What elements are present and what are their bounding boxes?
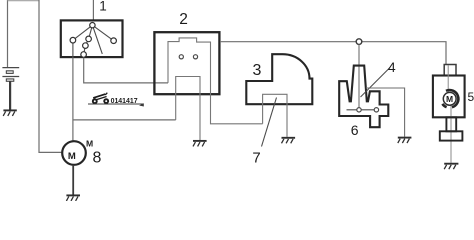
relay tab / pins	[176, 77, 200, 141]
wire node to coil 6	[358, 44, 360, 107]
svg-text:M: M	[446, 94, 453, 104]
ground G5	[398, 138, 412, 144]
svg-text:2: 2	[179, 11, 188, 28]
wire motor to ground	[72, 165, 74, 195]
ground G6 under starter	[444, 164, 458, 170]
horn 3 outline	[246, 54, 312, 104]
motor neck	[446, 117, 456, 131]
relay terminals	[179, 55, 197, 59]
motor 8	[62, 141, 86, 165]
starter motor 5	[444, 65, 456, 76]
ground G3 under horn	[282, 138, 296, 144]
ground G1 battery	[3, 110, 17, 116]
switch internal links	[73, 25, 114, 57]
motor M circle	[443, 92, 456, 105]
svg-text:6: 6	[351, 122, 359, 138]
top bus wire	[221, 42, 446, 65]
node junction	[356, 39, 362, 45]
switch assembly U1 box	[61, 20, 123, 57]
motor base	[440, 131, 463, 140]
svg-text:3: 3	[253, 62, 262, 79]
relay inner contour	[168, 38, 263, 124]
leader line 4	[361, 68, 391, 98]
wire left vertical to motor	[39, 0, 62, 152]
svg-text:8: 8	[93, 149, 102, 166]
coil terminal circles	[357, 108, 379, 112]
underline arrow tick	[139, 103, 144, 106]
switch contact circles	[70, 23, 116, 58]
part number underline	[88, 103, 144, 105]
relay 2 box	[154, 32, 219, 94]
wire top horizontal stub	[8, 0, 40, 2]
svg-text:M: M	[68, 151, 76, 162]
battery B1	[2, 68, 19, 110]
svg-text:1: 1	[99, 0, 107, 14]
part number logo moped icon	[92, 93, 109, 104]
ignition coil 6 outline	[339, 66, 388, 128]
ground G2 under relay	[193, 141, 207, 147]
wire relay to motor junction	[73, 119, 176, 121]
wire coil to ground	[366, 88, 405, 137]
leader line 7	[262, 98, 277, 147]
wire switch to motor 8	[72, 58, 74, 142]
stator arcs	[446, 90, 458, 107]
svg-text:M: M	[86, 139, 93, 149]
wire switch to relay 2	[84, 58, 168, 83]
svg-text:7: 7	[252, 150, 260, 167]
horn connector	[263, 94, 287, 137]
svg-text:4: 4	[388, 59, 396, 75]
coil terminal line	[347, 109, 377, 111]
wire to switch box 1	[92, 0, 94, 20]
wire top-left battery feed	[7, 0, 9, 67]
ground G4 under motor	[66, 195, 80, 201]
svg-text:5: 5	[468, 90, 474, 104]
